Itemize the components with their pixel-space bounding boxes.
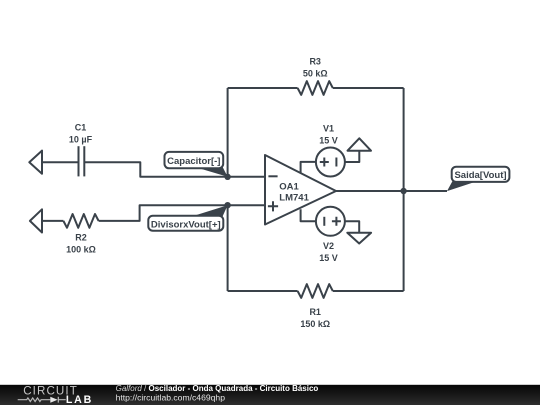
wire R2 to non-inverting input node <box>99 205 265 221</box>
svg-text:Saida[Vout]: Saida[Vout] <box>454 170 506 181</box>
node inverting input <box>224 174 230 180</box>
svg-text:15 V: 15 V <box>319 135 338 145</box>
svg-text:LM741: LM741 <box>279 192 309 203</box>
footer title text <box>116 384 319 402</box>
voltage source V2 <box>316 207 345 263</box>
port arrow Capacitor input <box>29 151 42 174</box>
ground symbol <box>347 233 371 244</box>
op-amp OA1 <box>265 155 336 225</box>
wire R3 left lead <box>228 87 298 89</box>
footer bar <box>0 385 540 405</box>
voltage source V1 <box>316 123 345 176</box>
svg-text:V2: V2 <box>323 241 334 251</box>
resistor R2 <box>63 214 98 254</box>
svg-text:150 kΩ: 150 kΩ <box>300 319 330 329</box>
svg-text:R2: R2 <box>75 232 87 242</box>
wire V2 to ground <box>345 221 360 232</box>
wire arrow to R2 <box>42 220 63 222</box>
node non-inverting input <box>224 202 230 208</box>
svg-text:DivisorxVout[+]: DivisorxVout[+] <box>151 219 221 230</box>
svg-text:15 V: 15 V <box>319 253 338 263</box>
svg-text:50 kΩ: 50 kΩ <box>303 68 328 78</box>
wire divider left vertical (node to R1) <box>227 205 229 291</box>
svg-text:R1: R1 <box>309 307 321 317</box>
wire C1 to inverting input node <box>84 162 265 177</box>
net flag Saida[Vout] <box>447 167 509 191</box>
svg-text:R3: R3 <box>309 56 321 66</box>
wire feedback left vertical (node to R3) <box>227 88 229 177</box>
svg-text:http://circuitlab.com/c469qhp: http://circuitlab.com/c469qhp <box>116 392 226 402</box>
net flag DivisorxVout[+] <box>148 205 227 231</box>
svg-text:OA1: OA1 <box>279 182 299 193</box>
wire R3 right lead <box>333 87 404 89</box>
resistor R3 <box>298 56 333 95</box>
svg-text:100 kΩ: 100 kΩ <box>66 244 96 254</box>
capacitor C1 <box>69 122 93 176</box>
wire R1 right lead <box>333 290 404 292</box>
svg-text:Capacitor[-]: Capacitor[-] <box>167 156 220 167</box>
resistor R1 <box>298 284 333 329</box>
wire arrow to C1 <box>42 161 79 163</box>
wire V- supply stub <box>301 209 317 221</box>
svg-text:LAB: LAB <box>66 394 93 405</box>
svg-text:10 µF: 10 µF <box>69 134 93 144</box>
wire output <box>336 190 447 192</box>
node output <box>400 188 406 194</box>
wire right vertical (R3 to output node to R1) <box>403 88 405 291</box>
svg-text:V1: V1 <box>323 123 334 133</box>
svg-text:C1: C1 <box>75 122 87 132</box>
port arrow Divisor input <box>30 209 42 232</box>
wire R1 left lead <box>228 290 298 292</box>
power flag symbol <box>348 138 372 150</box>
wire V+ supply stub <box>301 162 317 173</box>
CircuitLab logo <box>18 385 93 405</box>
net flag Capacitor[-] <box>165 152 228 177</box>
wire V1 to power flag <box>345 151 360 162</box>
